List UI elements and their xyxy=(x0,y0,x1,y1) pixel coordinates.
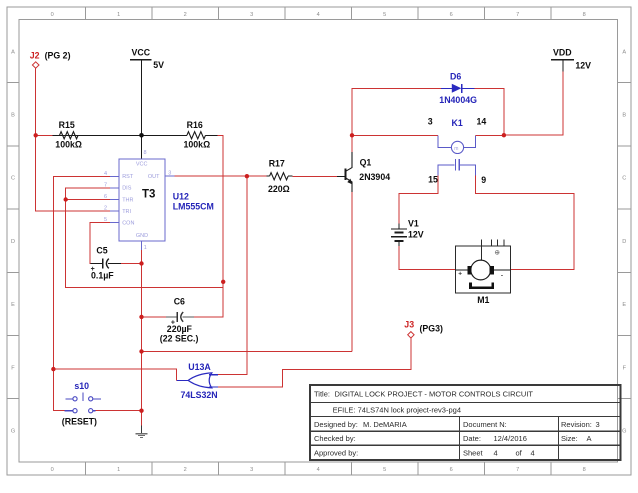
relay K1 contact pins 15-9 xyxy=(428,159,486,185)
svg-text:THR: THR xyxy=(122,197,133,203)
svg-text:G: G xyxy=(622,429,626,435)
svg-text:D: D xyxy=(622,239,626,245)
wire J2 to TRI pin 2 xyxy=(36,68,110,211)
svg-text:3: 3 xyxy=(596,420,600,429)
svg-text:1: 1 xyxy=(117,12,120,18)
svg-text:C: C xyxy=(11,176,15,182)
svg-text:2: 2 xyxy=(104,206,107,212)
svg-text:12V: 12V xyxy=(408,229,424,239)
svg-text:12/4/2016: 12/4/2016 xyxy=(494,434,527,443)
svg-text:2N3904: 2N3904 xyxy=(359,172,390,182)
svg-text:M. DeMARIA: M. DeMARIA xyxy=(363,420,407,429)
svg-text:Title:: Title: xyxy=(314,390,330,399)
svg-text:2: 2 xyxy=(184,467,187,473)
svg-text:+: + xyxy=(171,319,175,326)
svg-text:100kΩ: 100kΩ xyxy=(55,140,82,150)
svg-text:Sheet: Sheet xyxy=(463,449,484,458)
svg-text:F: F xyxy=(11,365,15,371)
svg-text:J2: J2 xyxy=(30,50,40,60)
diode D6 1N4004G xyxy=(439,72,477,105)
svg-text:E: E xyxy=(11,302,15,308)
svg-text:(PG3): (PG3) xyxy=(420,324,444,334)
svg-text:3: 3 xyxy=(168,171,171,177)
svg-text:V1: V1 xyxy=(408,218,419,228)
svg-text:5: 5 xyxy=(383,467,386,473)
svg-text:8: 8 xyxy=(583,467,586,473)
wire RST to s10/J3 node xyxy=(53,176,110,410)
ruler numbers top xyxy=(51,12,586,18)
svg-text:0: 0 xyxy=(51,467,54,473)
svg-text:2: 2 xyxy=(184,12,187,18)
svg-text:U13A: U13A xyxy=(188,362,211,372)
svg-text:8: 8 xyxy=(583,12,586,18)
svg-text:B: B xyxy=(11,113,15,119)
title block xyxy=(310,385,621,460)
wire VDD to relay node xyxy=(504,71,563,135)
svg-text:7: 7 xyxy=(516,12,519,18)
svg-text:74LS32N: 74LS32N xyxy=(181,390,218,400)
svg-text:s10: s10 xyxy=(74,381,89,391)
resistor R17 220 xyxy=(266,158,292,194)
svg-text:Designed by:: Designed by: xyxy=(314,420,358,429)
svg-text:of: of xyxy=(516,449,523,458)
svg-text:G: G xyxy=(11,429,15,435)
svg-text:4: 4 xyxy=(494,449,498,458)
svg-text:3: 3 xyxy=(250,467,253,473)
svg-text:220Ω: 220Ω xyxy=(268,184,290,194)
svg-text:A: A xyxy=(587,434,592,443)
wire K1 pin15 to V1 plus xyxy=(399,175,438,223)
svg-text:E: E xyxy=(622,302,626,308)
svg-text:RST: RST xyxy=(122,174,134,180)
svg-text:(PG 2): (PG 2) xyxy=(45,50,71,60)
svg-text:5V: 5V xyxy=(153,60,164,70)
wire R17 to Q1 base xyxy=(292,175,337,177)
ruler letters right xyxy=(622,49,626,434)
relay K1 coil pins 3-14 xyxy=(428,117,487,154)
svg-text:F: F xyxy=(623,365,627,371)
ground xyxy=(136,425,148,437)
svg-text:Approved by:: Approved by: xyxy=(314,449,358,458)
svg-text:D6: D6 xyxy=(450,72,461,82)
svg-text:U12: U12 xyxy=(173,192,189,202)
wire Q1 emitter down xyxy=(351,192,353,351)
wire K1 pin9 to M1 right xyxy=(476,175,574,269)
wire DIS loop xyxy=(66,188,224,287)
svg-text:R17: R17 xyxy=(269,158,285,168)
OR gate U13A 74LS32N (mirrored, pointing left) xyxy=(176,362,218,400)
svg-text:Size:: Size: xyxy=(561,434,578,443)
svg-text:(22 SEC.): (22 SEC.) xyxy=(160,334,199,344)
svg-text:100kΩ: 100kΩ xyxy=(184,140,211,150)
svg-text:0: 0 xyxy=(51,12,54,18)
svg-text:4: 4 xyxy=(317,12,320,18)
svg-text:5: 5 xyxy=(104,217,107,223)
switch s10 (RESET) xyxy=(62,381,101,426)
wire R15 row (black segment) xyxy=(52,134,187,136)
svg-text:3: 3 xyxy=(250,12,253,18)
svg-text:3: 3 xyxy=(428,117,433,127)
svg-text:8: 8 xyxy=(144,150,147,156)
svg-text:GND: GND xyxy=(136,233,148,239)
svg-text:1N4004G: 1N4004G xyxy=(439,95,477,105)
svg-text:C6: C6 xyxy=(174,297,185,307)
transistor Q1 2N3904 xyxy=(337,152,390,192)
555 timer U12 box xyxy=(104,150,214,251)
svg-text:Date:: Date: xyxy=(463,434,481,443)
wire gate input B to J3 xyxy=(218,338,411,387)
power VCC 5V xyxy=(130,48,164,70)
wire K1 pin14 to VDD node xyxy=(476,134,504,136)
svg-text:OUT: OUT xyxy=(148,174,160,180)
svg-text:R16: R16 xyxy=(187,120,203,130)
svg-text:DIS: DIS xyxy=(122,186,132,192)
svg-text:Revision:: Revision: xyxy=(561,420,592,429)
svg-text:J3: J3 xyxy=(404,320,414,330)
motor M1 xyxy=(456,240,511,305)
wire GND net vertical xyxy=(141,250,143,426)
svg-text:14: 14 xyxy=(477,117,487,127)
wire ground node to Q1 emitter xyxy=(142,350,353,352)
wire VCC down to U12 pin 8 xyxy=(141,60,143,160)
port J3 (PG3) xyxy=(404,320,443,338)
svg-text:K1: K1 xyxy=(452,118,463,128)
svg-text:4: 4 xyxy=(317,467,320,473)
wire D6 cathode to VDD node xyxy=(475,88,504,135)
wire Q1 collector / D6 anode / K1 pin3 node xyxy=(352,88,441,152)
svg-text:A: A xyxy=(11,49,15,55)
svg-text:7: 7 xyxy=(516,467,519,473)
svg-text:+: + xyxy=(458,270,462,277)
svg-text:12V: 12V xyxy=(575,61,591,71)
svg-text:B: B xyxy=(622,113,626,119)
power VDD 12V xyxy=(551,48,591,72)
wire R16 right down to THR/C6 node xyxy=(194,135,223,317)
svg-text:CON: CON xyxy=(122,220,134,226)
svg-text:1: 1 xyxy=(144,245,147,251)
port J2 (PG 2) xyxy=(30,50,71,68)
svg-text:-: - xyxy=(501,272,503,279)
svg-text:7: 7 xyxy=(104,182,107,188)
wire J2 net to R15 (red stub) xyxy=(36,134,53,136)
svg-text:15: 15 xyxy=(428,175,438,185)
svg-text:6: 6 xyxy=(450,12,453,18)
wire V1 minus to M1 left xyxy=(399,246,456,269)
svg-text:C: C xyxy=(622,176,626,182)
wire gate output to RST node xyxy=(53,369,176,380)
ruler letters left xyxy=(11,49,15,434)
svg-text:6: 6 xyxy=(104,194,107,200)
capacitor C5 0.1uF xyxy=(90,246,120,281)
svg-text:TRI: TRI xyxy=(122,209,131,215)
capacitor C6 220uF xyxy=(160,297,199,344)
svg-text:C5: C5 xyxy=(96,246,107,256)
wire gate input A to OUT node xyxy=(218,176,247,375)
svg-text:VDD: VDD xyxy=(553,48,572,58)
svg-text:4: 4 xyxy=(104,171,107,177)
svg-text:9: 9 xyxy=(481,175,486,185)
ruler numbers bottom xyxy=(51,467,586,473)
wire C6 left stub xyxy=(142,316,167,318)
svg-text:A: A xyxy=(622,49,626,55)
svg-text:M1: M1 xyxy=(477,295,489,305)
svg-text:6: 6 xyxy=(450,467,453,473)
svg-text:VCC: VCC xyxy=(136,162,148,168)
wire CON to C5 xyxy=(90,223,110,264)
wire OUT row xyxy=(175,175,267,177)
svg-text:1: 1 xyxy=(117,467,120,473)
wire C5 right to GND net xyxy=(121,263,142,265)
svg-text:EFILE: 74LS74N lock project-re: EFILE: 74LS74N lock project-rev3-pg4 xyxy=(333,405,461,414)
svg-text:m: m xyxy=(454,146,458,152)
junction dot VCC (black) xyxy=(139,133,144,138)
svg-text:T3: T3 xyxy=(142,188,155,200)
resistor R16 100k xyxy=(184,120,218,149)
svg-text:Checked by:: Checked by: xyxy=(314,434,356,443)
wire THR stub xyxy=(66,199,110,201)
svg-text:D: D xyxy=(11,239,15,245)
svg-text:Document N:: Document N: xyxy=(463,420,507,429)
wire s10 right to GND net xyxy=(95,410,141,412)
svg-text:LM555CM: LM555CM xyxy=(173,202,214,212)
svg-text:R15: R15 xyxy=(59,120,75,130)
svg-text:DIGITAL LOCK PROJECT - MOTOR C: DIGITAL LOCK PROJECT - MOTOR CONTROLS CI… xyxy=(335,390,534,399)
battery V1 12V xyxy=(391,218,424,246)
svg-text:(RESET): (RESET) xyxy=(62,417,97,427)
svg-text:5: 5 xyxy=(383,12,386,18)
svg-text:Q1: Q1 xyxy=(360,157,372,167)
resistor R15 100k xyxy=(55,120,82,149)
svg-text:VCC: VCC xyxy=(132,48,151,58)
svg-text:+: + xyxy=(91,266,95,273)
svg-text:4: 4 xyxy=(531,449,535,458)
